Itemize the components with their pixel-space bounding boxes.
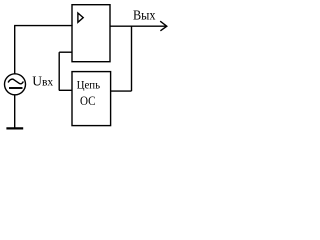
svg-text:Цепь: Цепь [77, 78, 101, 92]
amplifier box U1 [72, 5, 110, 62]
svg-text:ОС: ОС [80, 93, 96, 108]
wire feedback left horizontal [59, 89, 72, 91]
wire source top vertical [14, 26, 16, 74]
feedback network box "Цепь ОС" [72, 72, 111, 126]
wire feedback tap vertical [131, 26, 133, 91]
svg-text:Uвх: Uвх [32, 75, 53, 90]
wire feedback right horizontal [111, 90, 132, 92]
wire source bottom vertical [14, 95, 16, 128]
amplifier triangle symbol [78, 13, 83, 22]
output arrowhead [160, 21, 167, 31]
svg-text:Вых: Вых [133, 9, 156, 24]
wire lower input horizontal [59, 51, 72, 53]
ground bar [6, 127, 23, 129]
bar under sine [9, 87, 23, 89]
wire top input horizontal [14, 25, 73, 27]
wire feedback left vertical [58, 52, 60, 90]
AC source G1 circle [5, 74, 26, 95]
sine symbol inside source [8, 79, 23, 84]
wire output horizontal [110, 25, 167, 27]
